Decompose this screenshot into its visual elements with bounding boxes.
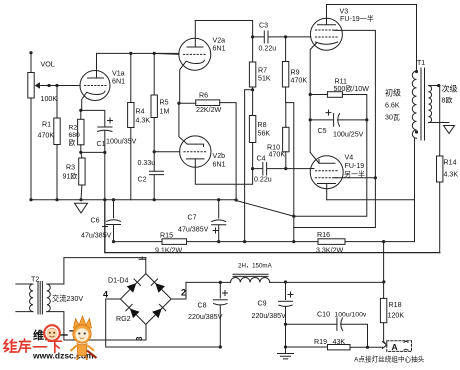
svg-text:初级: 初级 [385, 88, 401, 98]
svg-text:8欧: 8欧 [442, 96, 453, 105]
svg-text:3: 3 [135, 336, 144, 341]
svg-text:V2b: V2b [213, 152, 226, 160]
svg-text:4.3K: 4.3K [136, 117, 151, 125]
svg-text:FU-19: FU-19 [345, 162, 365, 170]
svg-text:47u/385V: 47u/385V [81, 232, 112, 240]
svg-text:C6: C6 [91, 217, 100, 225]
svg-text:500欧/10W: 500欧/10W [334, 84, 370, 93]
svg-text:4: 4 [103, 290, 108, 300]
svg-text:100u/35V: 100u/35V [106, 138, 137, 146]
svg-text:R9: R9 [291, 69, 300, 77]
svg-text:D1-D4: D1-D4 [108, 277, 129, 285]
svg-text:43K: 43K [333, 338, 346, 346]
svg-text:0.33u: 0.33u [138, 159, 156, 167]
svg-text:220u/385V: 220u/385V [188, 313, 223, 321]
svg-text:R15: R15 [160, 232, 173, 240]
svg-text:0.22u: 0.22u [254, 176, 272, 184]
svg-text:A: A [392, 342, 398, 352]
svg-text:470K: 470K [38, 132, 55, 140]
svg-text:另一半: 另一半 [344, 170, 365, 179]
svg-text:3.3K/2W: 3.3K/2W [316, 247, 344, 255]
svg-text:9.1K/2W: 9.1K/2W [155, 247, 183, 255]
svg-text:R14: R14 [444, 159, 457, 167]
svg-text:R6: R6 [199, 92, 208, 100]
svg-text:470K: 470K [269, 151, 286, 159]
svg-text:30瓦: 30瓦 [385, 114, 400, 122]
svg-text:A点接灯丝绕组中心抽头: A点接灯丝绕组中心抽头 [354, 355, 425, 364]
svg-text:6N1: 6N1 [213, 45, 226, 53]
svg-text:RG2: RG2 [116, 315, 131, 323]
svg-text:120K: 120K [388, 312, 405, 320]
svg-text:6.6K: 6.6K [385, 102, 400, 110]
svg-text:R4: R4 [136, 108, 145, 116]
svg-text:C1: C1 [97, 140, 106, 148]
svg-text:R8: R8 [258, 121, 267, 129]
svg-text:R5: R5 [160, 99, 169, 107]
svg-text:C9: C9 [258, 300, 267, 308]
svg-text:FU-19一半: FU-19一半 [340, 14, 374, 23]
svg-text:4.3K: 4.3K [444, 171, 459, 179]
svg-text:C3: C3 [259, 22, 268, 30]
svg-text:2H，150mA: 2H，150mA [238, 263, 273, 270]
svg-text:0.22u: 0.22u [259, 45, 277, 53]
svg-text:R3: R3 [66, 164, 75, 172]
svg-text:欧: 欧 [69, 138, 76, 147]
svg-text:680: 680 [69, 132, 81, 139]
svg-text:22K/2W: 22K/2W [196, 106, 222, 114]
svg-text:VOL: VOL [41, 61, 55, 69]
svg-text:C7: C7 [188, 214, 197, 222]
svg-text:6N1: 6N1 [112, 78, 125, 86]
svg-text:C5: C5 [318, 127, 327, 135]
svg-text:R2: R2 [69, 125, 78, 132]
svg-text:T2: T2 [31, 276, 39, 284]
svg-text:C4: C4 [257, 155, 266, 163]
svg-text:2: 2 [181, 288, 186, 298]
svg-text:C8: C8 [198, 302, 207, 310]
svg-text:91欧: 91欧 [63, 172, 78, 181]
svg-text:R18: R18 [389, 301, 402, 309]
svg-text:470K: 470K [291, 77, 308, 85]
svg-text:47u/385V: 47u/385V [178, 226, 209, 234]
svg-text:1M: 1M [160, 108, 170, 116]
svg-text:100K: 100K [41, 95, 58, 103]
svg-text:51K: 51K [258, 75, 271, 83]
svg-text:交流230V: 交流230V [52, 294, 83, 303]
svg-text:220u/385V: 220u/385V [252, 312, 287, 320]
svg-text:C10: C10 [317, 311, 330, 319]
svg-text:V4: V4 [345, 154, 354, 162]
svg-text:6N1: 6N1 [213, 161, 226, 169]
svg-text:T1: T1 [417, 60, 425, 67]
svg-text:V2a: V2a [213, 37, 226, 45]
svg-text:R1: R1 [42, 121, 51, 129]
svg-text:V1a: V1a [112, 70, 125, 78]
svg-text:R19: R19 [314, 338, 327, 346]
svg-text:56K: 56K [258, 130, 271, 138]
svg-text:C2: C2 [138, 176, 147, 184]
svg-text:100u/100v: 100u/100v [335, 312, 367, 319]
svg-text:次级: 次级 [442, 84, 458, 94]
svg-text:R16: R16 [317, 231, 330, 239]
svg-text:100u/25V: 100u/25V [333, 131, 364, 139]
svg-text:R7: R7 [258, 67, 267, 75]
